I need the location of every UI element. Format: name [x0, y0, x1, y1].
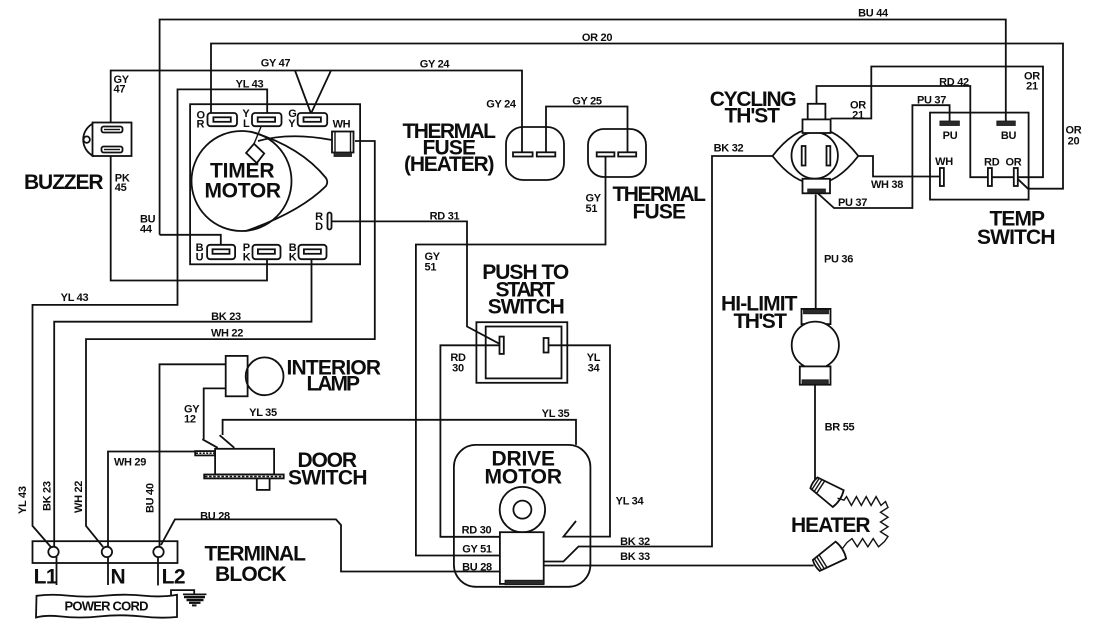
svg-text:WH 29: WH 29	[114, 457, 146, 469]
terminal block stub L1	[56, 557, 58, 585]
wire WH29 door switch to terminal block N	[108, 452, 215, 548]
hi-limit thermostat top tab	[802, 309, 831, 324]
svg-text:RD 30: RD 30	[462, 525, 492, 537]
svg-text:GY 25: GY 25	[572, 96, 602, 108]
cycling thermostat eye body	[773, 128, 859, 184]
svg-text:GY51: GY51	[586, 193, 602, 216]
interior lamp bulb	[246, 357, 284, 395]
wire RD42 cycling to temp switch	[817, 86, 1014, 177]
wire RD30 push-to-start to drive motor	[440, 345, 500, 537]
cycling thermostat bottom cap	[803, 179, 831, 194]
svg-text:BK 23: BK 23	[211, 311, 241, 323]
push-to-start switch inner box	[486, 327, 562, 379]
svg-text:WH 22: WH 22	[211, 328, 243, 340]
svg-text:BLOCK: BLOCK	[215, 563, 286, 586]
ground lead from power cord	[171, 590, 194, 595]
terminal block stub L2	[157, 557, 159, 585]
heater element zigzag	[838, 497, 889, 549]
svg-text:FUSE: FUSE	[633, 201, 686, 224]
wire BU44 drop to timer BU terminal	[160, 235, 221, 246]
timer motor box	[190, 104, 360, 264]
timer terminal Y-L	[252, 113, 282, 126]
svg-text:L1: L1	[34, 566, 58, 589]
door switch body	[215, 449, 274, 475]
svg-text:BU 28: BU 28	[200, 511, 230, 523]
svg-text:BU44: BU44	[140, 214, 156, 236]
wire BR55 hi-limit to heater	[814, 385, 816, 481]
svg-text:MOTOR: MOTOR	[485, 466, 562, 489]
svg-text:OR20: OR20	[1066, 125, 1082, 148]
svg-text:RD 42: RD 42	[939, 77, 969, 89]
svg-text:YL 43: YL 43	[236, 79, 264, 91]
hi-limit thermostat circle	[792, 322, 839, 369]
push-to-start contact right	[544, 338, 549, 353]
thermal fuse body	[588, 129, 646, 177]
thermal fuse bar right	[618, 152, 636, 156]
thermal fuse heater bar right	[537, 152, 556, 156]
buzzer terminal top	[102, 127, 123, 133]
svg-text:BK 32: BK 32	[620, 536, 650, 548]
cycling thermostat contact bar left	[802, 146, 806, 166]
wire OR20 top run	[211, 44, 1063, 189]
svg-text:SWITCH: SWITCH	[288, 467, 367, 490]
svg-text:RD30: RD30	[450, 352, 466, 375]
svg-text:BU 28: BU 28	[462, 562, 492, 574]
svg-text:PK45: PK45	[115, 173, 130, 195]
wire PU36 cycling to hi-limit	[815, 195, 817, 309]
wire GY47 buzzer to timer	[111, 71, 522, 153]
heater bottom cone connector	[810, 541, 848, 575]
wire OR21 cycling to temp switch OR	[831, 67, 1043, 178]
timer cam link	[254, 127, 261, 144]
wire YL43 timer terminal drop	[33, 89, 268, 547]
svg-text:PU: PU	[943, 130, 958, 142]
svg-text:GY 24: GY 24	[486, 99, 517, 111]
svg-text:BK 23: BK 23	[42, 481, 54, 511]
cycling thermostat neck upper	[808, 104, 826, 121]
svg-text:POWER CORD: POWER CORD	[65, 599, 149, 614]
ground symbol	[183, 594, 207, 605]
svg-text:BK: BK	[289, 242, 297, 264]
hi-limit thermostat bottom tab	[800, 366, 831, 384]
timer belt loop	[246, 132, 327, 232]
door switch base plate	[204, 475, 284, 479]
svg-text:BR 55: BR 55	[825, 422, 855, 434]
svg-text:OR 20: OR 20	[582, 32, 612, 44]
svg-text:GY 47: GY 47	[261, 58, 291, 70]
svg-text:PU 37: PU 37	[917, 95, 946, 107]
svg-text:(HEATER): (HEATER)	[404, 153, 494, 176]
drive motor rotor	[500, 487, 545, 532]
timer RD contact bar	[328, 213, 332, 230]
svg-text:TH'ST: TH'ST	[725, 105, 781, 128]
svg-text:GY47: GY47	[114, 74, 130, 96]
timer motor rotor circle	[192, 131, 292, 231]
svg-text:BUZZER: BUZZER	[24, 171, 103, 194]
door switch bottom stub	[257, 478, 270, 490]
svg-text:BK 32: BK 32	[714, 143, 744, 155]
svg-text:L2: L2	[162, 566, 186, 589]
heater top cone connector	[808, 474, 846, 508]
wire GY12 lamp to door switch	[204, 388, 226, 439]
svg-text:GY 51: GY 51	[462, 544, 492, 556]
push-to-start switch outer box	[476, 322, 567, 383]
svg-text:WH 22: WH 22	[73, 481, 85, 513]
buzzer terminal bottom	[102, 147, 123, 153]
wire BK32 cycling to drive motor	[544, 156, 773, 562]
svg-text:WH: WH	[333, 119, 351, 131]
temp switch terminal PU	[940, 121, 960, 126]
svg-text:GY12: GY12	[184, 404, 200, 426]
svg-text:PU 37: PU 37	[838, 197, 867, 209]
wire WH22 timer WH to terminal block N	[86, 141, 375, 547]
svg-text:RD: RD	[315, 211, 323, 233]
svg-text:BU: BU	[1001, 130, 1017, 142]
cycling thermostat contact bar right	[827, 146, 831, 166]
thermal fuse bar left	[597, 152, 615, 156]
svg-text:SWITCH: SWITCH	[488, 296, 565, 319]
wire BU44 top run	[160, 20, 1006, 235]
wire BK33 drive motor to heater	[544, 565, 814, 567]
svg-text:LAMP: LAMP	[307, 373, 360, 396]
wire GY24 V-arm right into GY terminal	[311, 71, 331, 114]
svg-text:N: N	[111, 566, 126, 589]
terminal block body	[33, 541, 178, 563]
door switch contact pad	[195, 451, 215, 455]
wire BK23 timer BK to terminal block L1	[54, 259, 311, 547]
wire GY25 between thermal fuses	[546, 107, 628, 153]
svg-text:RD: RD	[984, 157, 1000, 169]
svg-text:OR: OR	[1006, 157, 1022, 169]
components-layer	[33, 104, 1029, 618]
svg-text:YL 43: YL 43	[17, 486, 29, 514]
timer WH contact box	[332, 132, 354, 157]
svg-text:YL 34: YL 34	[616, 496, 645, 508]
wire GY47 V-arm left into GY terminal	[295, 71, 311, 114]
svg-text:SWITCH: SWITCH	[977, 226, 1055, 249]
terminal block lug L1	[48, 547, 58, 557]
cycling thermostat circle	[792, 132, 838, 178]
temp switch terminal RD	[988, 168, 992, 186]
svg-text:YL 35: YL 35	[542, 408, 570, 420]
push-to-start contact left	[500, 337, 504, 354]
svg-text:HEATER: HEATER	[791, 514, 870, 537]
interior lamp socket	[226, 356, 248, 396]
svg-text:BU 44: BU 44	[858, 8, 889, 20]
svg-text:BK 33: BK 33	[620, 551, 650, 563]
svg-text:PU 36: PU 36	[824, 254, 853, 266]
svg-text:GY 24: GY 24	[420, 59, 451, 71]
svg-text:OR: OR	[197, 110, 206, 131]
temp switch terminal WH	[940, 168, 944, 186]
timer terminal G-Y	[298, 113, 328, 126]
svg-text:WH: WH	[935, 156, 953, 168]
terminal block lug N	[102, 547, 112, 557]
wire RD31 timer to push-to-start	[332, 221, 500, 343]
drive motor body	[454, 445, 591, 587]
svg-text:YL 43: YL 43	[61, 292, 89, 304]
svg-text:OR21: OR21	[1024, 71, 1040, 93]
timer cam lever to WH	[258, 136, 332, 141]
temp switch box	[930, 113, 1029, 200]
drive motor rotor hub	[513, 501, 531, 519]
drive motor terminal box	[500, 532, 544, 585]
timer terminal B-K	[299, 245, 327, 259]
svg-text:PK: PK	[243, 242, 251, 264]
door switch arm left	[202, 439, 217, 448]
svg-text:RD 31: RD 31	[430, 211, 460, 223]
wire YL34 push-to-start to drive motor	[549, 345, 611, 536]
svg-text:BU: BU	[196, 242, 204, 264]
wire BU40 terminal block L2 to lamp	[160, 364, 226, 547]
wire GY51 thermal fuse to drive motor	[416, 156, 606, 555]
thermal fuse heater bar left	[513, 152, 533, 156]
terminal block lug L2	[153, 547, 163, 557]
timer terminal O-R	[208, 113, 238, 126]
wire BU28 terminal block L2 to drive motor	[161, 519, 500, 571]
temp switch terminal BU	[997, 121, 1016, 126]
svg-text:YL34: YL34	[587, 352, 601, 375]
svg-text:YL: YL	[242, 108, 250, 130]
cycling thermostat neck lower	[803, 119, 831, 133]
svg-text:GY: GY	[288, 108, 296, 130]
wire PK45 buzzer to timer PK	[111, 150, 267, 281]
wire WH38 cycling to temp switch WH	[858, 156, 940, 177]
thermal fuse heater body	[506, 127, 564, 180]
svg-text:BU 40: BU 40	[145, 483, 157, 513]
timer terminal B-U	[207, 245, 235, 259]
wire PU37 cycling to temp switch PU	[818, 105, 950, 208]
door switch arm right	[220, 435, 235, 448]
timer cam diamond	[246, 144, 264, 163]
svg-text:TH'ST: TH'ST	[734, 310, 788, 333]
temp switch terminal OR	[1014, 168, 1018, 186]
buzzer body	[83, 123, 131, 157]
terminal block stub N	[107, 557, 109, 585]
svg-text:MOTOR: MOTOR	[205, 180, 281, 203]
svg-text:YL 35: YL 35	[249, 407, 277, 419]
wire YL35 door switch to drive motor	[223, 420, 576, 445]
svg-text:WH 38: WH 38	[871, 179, 903, 191]
power cord box	[36, 595, 177, 618]
svg-text:GY51: GY51	[425, 251, 441, 274]
timer terminal P-K	[253, 245, 281, 259]
